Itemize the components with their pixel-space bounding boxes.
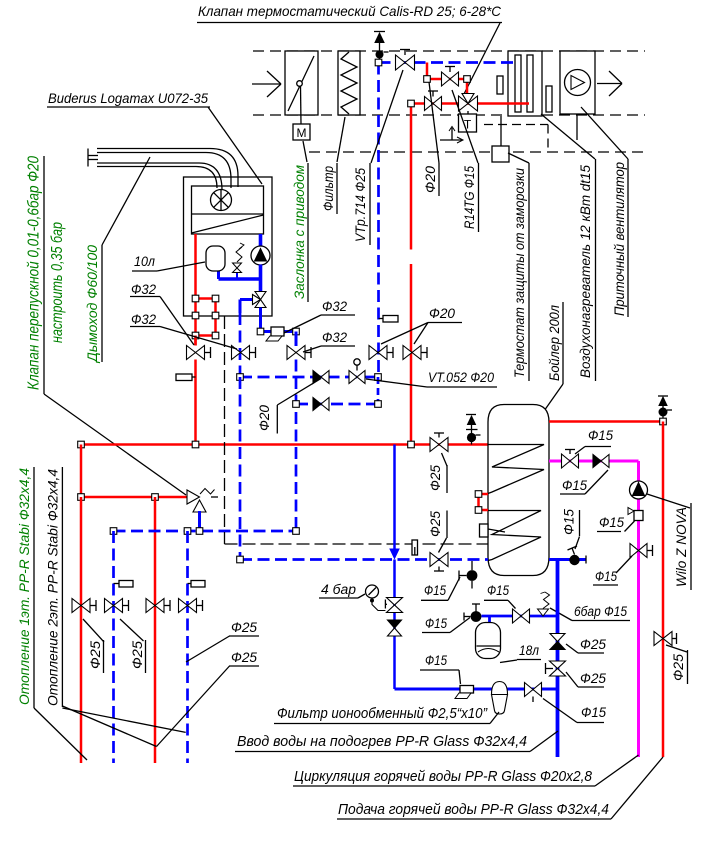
wire: condensate drain vertical [224,316,226,544]
node y497 mid [152,494,159,501]
svg-text:Ф25: Ф25 [231,620,257,635]
svg-text:4 бар: 4 бар [321,582,357,597]
leader [595,755,639,786]
wire: blue dashed between branches [377,377,380,404]
wire: boiler red supply internal [194,234,197,346]
node on return line [375,59,382,66]
duct sensor 2 [546,86,552,112]
wire: boiler blue return internal top [259,234,263,247]
wire: blue dashed riser 1 return [112,531,115,763]
wire: blue dashed header y531 [114,530,297,533]
leader frost box [508,153,529,163]
lower coil [488,511,541,561]
boiler outer box [184,177,273,316]
leader filter [337,117,345,162]
svg-text:10л: 10л [134,254,155,269]
leader [459,670,461,684]
leader [120,619,144,641]
leader [450,618,470,633]
svg-text:Ф32: Ф32 [322,299,347,314]
check valve on branch upper [313,371,321,384]
leader R14TG [452,90,478,163]
boiler inner box with divider [192,186,264,234]
svg-text:Бойлер 200л: Бойлер 200л [547,305,562,381]
wire: blue dashed from strainer valve down [295,360,298,532]
svg-text:Термостат защиты от заморозки: Термостат защиты от заморозки [512,168,527,378]
wire: red header y444 [81,443,488,446]
svg-text:настроить 0,35 бар: настроить 0,35 бар [49,222,66,343]
damper (Заслонка) box with blade [285,51,318,115]
leader [575,447,585,455]
node coil link top [475,491,482,498]
svg-text:Фильтр: Фильтр [321,166,336,211]
leader to 3-way valve [464,23,500,94]
wire: blue dashed tank coil return y559 [240,558,488,561]
node y559 left [237,556,244,563]
air inlet arrow [252,83,280,85]
wire: magenta riser down [637,461,640,757]
svg-text:6бар Ф15: 6бар Ф15 [574,604,627,619]
valve VT.052 Ф20 [349,371,365,384]
svg-text:M: M [297,126,307,140]
wire: blue makeup vertical upper with arrow [393,445,396,551]
valve Ф15 circulation [562,454,579,468]
svg-text:Подача горячей воды PP-R Glass: Подача горячей воды PP-R Glass Ф32х4,4 [338,802,609,818]
leader [575,537,580,550]
wire: blue to expansion vessel [219,277,261,281]
wire: blue dashed left drop [239,313,242,377]
leaders 1эт [34,708,87,760]
wire: red supply to heater [411,102,529,105]
wire: blue dashed branch upper y377 [240,376,378,379]
wire: blue cold water y616 [482,615,558,618]
leader damper [303,141,307,162]
node branch lower left [293,401,300,408]
svg-text:VTp.714 Ф25: VTp.714 Ф25 [353,168,368,242]
svg-text:Ф15: Ф15 [595,569,617,584]
leader [83,619,104,642]
svg-text:Ф25: Ф25 [88,640,103,669]
wire: blue dashed x240 down [239,377,242,560]
check valve on branch lower [313,398,321,411]
wire: magenta DHW circulation [549,460,639,463]
node loop 6 [212,332,219,339]
node bypass left [424,76,431,83]
leader [611,757,663,819]
valve riser red2 [146,599,164,613]
bypass valve (клапан перепускной) [187,490,200,504]
svg-text:Ф20: Ф20 [429,306,455,321]
leader to boiler [208,107,262,184]
safety valve 6бар [538,609,549,616]
svg-text:Ввод воды на подогрев PP-R Gla: Ввод воды на подогрев PP-R Glass Ф32х4,4 [237,734,527,750]
wire: blue left port of 3-way [240,298,253,301]
wire: blue tank inlet stub [549,558,586,561]
svg-text:Фильтр ионообменный Ф2,5“х10”: Фильтр ионообменный Ф2,5“х10” [277,706,488,722]
duct sensor 1 [497,76,503,94]
node loop 4 [212,312,219,319]
check valve makeup [388,620,402,628]
leader [448,577,460,600]
wire: red left drop [80,445,83,498]
wire: red bypass horizontal [427,78,467,81]
wire: blue dashed riser 2 return [186,531,189,763]
svg-text:Клапан термостатический Calis-: Клапан термостатический Calis-RD 25; 6-2… [198,3,502,19]
boiler safety valve [236,272,238,279]
node DHW corner [660,418,667,425]
valve feed [550,661,566,676]
temp sensor tank bottom [569,555,579,565]
leader [508,600,516,608]
valve Ф32 on return drop [232,346,250,360]
leader [566,672,578,687]
drain filter symbol [412,540,418,555]
leader [490,712,499,724]
svg-text:Ф20: Ф20 [423,165,438,193]
valve Ф20 on blue riser [369,346,387,360]
node loop 3 [192,312,199,319]
air outlet arrow [597,83,622,85]
wire: blue bottom line y689 [395,688,558,691]
svg-text:Циркуляция горячей воды PP-R G: Циркуляция горячей воды PP-R Glass Ф20х2… [294,769,592,785]
node bypass right [464,76,471,83]
leader [616,556,632,573]
wire: blue elbow to strainer [261,330,297,333]
leader fan [581,107,628,159]
leader [566,644,578,653]
boiler pump [251,246,270,265]
svg-text:Отопление 1эт. PP-R Stabi Ф32х: Отопление 1эт. PP-R Stabi Ф32х4,4 [17,468,32,705]
leader [277,379,321,406]
svg-text:Ф15: Ф15 [588,428,613,443]
wire: blue dashed branch lower y404 [296,403,378,406]
wire: red DHW supply from tank top [549,420,663,423]
svg-text:Ф15: Ф15 [487,583,509,598]
heater box (Воздухонагреватель) [508,51,542,116]
wire: red bypass stub [426,63,429,80]
tank sensor pocket [480,524,489,537]
svg-text:Клапан перепускной 0,01-0,6бар: Клапан перепускной 0,01-0,6бар Ф20 [26,156,43,390]
fan box (Приточный вентилятор) [560,51,595,114]
valve Ф20 on supply [425,97,442,111]
leader [666,645,687,652]
leader to chimney [102,157,150,245]
node loop 5 [192,332,199,339]
svg-text:Ф25: Ф25 [130,640,145,669]
red manifold loop [196,297,216,300]
wire: blue pump down [259,265,263,293]
svg-text:Ф32: Ф32 [131,282,156,297]
node on supply [408,100,415,107]
leader [530,731,558,752]
node branch upper right [375,374,382,381]
heater sensor stem [500,116,502,146]
svg-text:Ф15: Ф15 [599,515,624,530]
wire: red riser from header upper [410,104,413,250]
boiler fan [211,190,232,211]
svg-text:Ф15: Ф15 [425,653,447,668]
svg-text:Ф15: Ф15 [581,705,606,720]
node y531 left [110,528,117,535]
sensor riser2 [191,581,205,588]
sensor on red drop [176,374,192,381]
svg-text:Ф15: Ф15 [425,616,447,631]
leaders Ф20 [381,323,428,345]
valve riser red1 [72,599,90,613]
svg-text:Wilo Z NOVA: Wilo Z NOVA [674,507,689,587]
svg-text:Приточный вентилятор: Приточный вентилятор [612,162,627,316]
flow direction symbol [451,128,453,140]
svg-text:Дымоход Ф60/100: Дымоход Ф60/100 [84,245,100,364]
leader [358,594,365,598]
expansion vessel 18л [488,616,491,623]
ion exchange filter funnel [492,682,508,695]
node header boiler [192,441,199,448]
svg-text:Ф25: Ф25 [671,653,686,681]
valve bottom line [525,683,542,697]
svg-text:Ф20: Ф20 [257,405,272,431]
frost capillary dashed lines [484,124,548,126]
svg-text:Ф25: Ф25 [428,465,443,491]
svg-text:Ф15: Ф15 [562,509,577,535]
node y497 left [78,494,85,501]
sensor on blue dashed riser [383,316,398,323]
pressure gauge 4 бар [366,585,379,598]
wire: blue down to valve [295,332,298,347]
leader [157,666,230,747]
circulation pump Wilo Z NOVA [630,481,648,499]
wire: red DHW riser down [662,422,665,758]
valve circulation lower [630,544,647,558]
wire: blue dashed return from AHU heater [379,61,516,64]
svg-text:R14TG Ф15: R14TG Ф15 [462,166,477,229]
node loop 2 [212,295,219,302]
svg-text:Ф32: Ф32 [322,330,347,345]
svg-text:Заслонка с приводом: Заслонка с приводом [292,165,307,299]
node y531 bypass [196,528,203,535]
3-way thermostatic valve Calis-RD [459,96,478,111]
wire: red riser 2 (Отопление 2эт supply) [154,497,157,763]
AHU casing lower dashed line [309,151,645,153]
leader [585,470,608,494]
valve riser blue1 [105,599,123,613]
wire: red drop to 3-way [466,79,469,96]
air vent on return line [374,31,385,33]
leader [550,608,572,621]
node elbow [257,328,264,335]
node branch upper left [237,374,244,381]
temp sensor hanging from coil return line [471,561,473,570]
leader VT052 [366,379,427,387]
wire: red header y497 [81,496,187,499]
node y531 right [293,528,300,535]
valve Ф25 tank supply [430,438,448,452]
wire: blue cold feed riser [556,560,560,758]
wire: blue dashed riser down [377,63,380,378]
damper actuator M box [293,124,310,140]
svg-text:Ф25: Ф25 [231,650,257,665]
boiler tank Бойлер 200л [488,405,549,576]
leader [500,660,517,663]
dirt trap on inlet line [460,686,474,694]
non-return symbol [634,511,643,521]
red coil link stubs [479,493,489,496]
3-way valve in boiler [255,292,266,308]
wire: blue left drop solid [239,300,242,314]
air vent DHW [658,395,668,397]
node y531 riser2 [184,528,191,535]
valve Ф32 boiler return [287,346,305,360]
wire: red main drop from boiler [194,360,197,445]
valve Ф25 coil return [430,553,448,567]
svg-text:Ф32: Ф32 [131,312,156,327]
leader [439,538,447,553]
check valve circulation [593,455,601,468]
check valve feed [550,634,565,642]
wire: red down to valve row [194,336,197,346]
valve R14TG on bypass [442,72,459,86]
node loop 1 [192,295,199,302]
svg-text:Ф15: Ф15 [562,478,587,493]
upper coil [488,445,544,494]
wire: blue makeup vertical lower [393,560,396,690]
AHU duct bottom dashed line [253,114,645,116]
sensor riser1 [119,581,133,588]
wire: red riser from header lower [410,264,413,445]
frost thermostat box [492,146,509,162]
expansion vessel 10л [206,246,225,271]
node branch lower right [375,401,382,408]
node coil link bottom [475,507,482,514]
leader VTp714 [371,70,403,163]
thermostat T box [459,114,477,132]
svg-text:VT.052 Ф20: VT.052 Ф20 [428,370,494,385]
leader [284,315,321,333]
AHU duct top dashed line [253,50,645,52]
svg-text:Buderus Logamax U072-35: Buderus Logamax U072-35 [48,90,208,106]
valve Ф25 DHW [654,632,672,646]
wire: blue below 3-way [259,308,262,332]
leaders 2эт [62,706,156,747]
leader [186,636,230,662]
valve Ф32 boiler supply [187,346,205,360]
leader heater [541,114,595,159]
svg-text:Ф25: Ф25 [428,511,443,537]
air vent on tank supply [466,414,476,416]
valve Ф20 on red riser [403,346,421,360]
leader to bypass valve [44,394,186,495]
node strainer right [293,328,300,335]
filter box with zigzag [338,51,360,115]
leader [303,346,321,352]
svg-text:T: T [464,118,472,132]
leader 10л [157,262,205,271]
fan stem [576,114,578,140]
leader boiler tank [544,384,563,411]
svg-text:Отопление 2эт. PP-R Stabi Ф32х: Отопление 2эт. PP-R Stabi Ф32х4,4 [46,469,61,706]
leader [625,521,635,532]
wire: red riser 1 (Отопление 1эт supply) [80,497,83,763]
leader [543,699,577,723]
leader pump [647,494,690,508]
leader Ф20 [429,82,439,163]
valve makeup [387,598,403,613]
leader [160,297,194,346]
node header left [78,441,85,448]
node header AHU riser [408,441,415,448]
strainer Ф32 [271,327,284,336]
wire: blue stub from bypass [198,511,201,531]
leader [442,453,448,466]
svg-text:Ф15: Ф15 [424,583,446,598]
chimney Ф60/100 double pipe [97,149,238,188]
valve riser blue2 [179,599,197,613]
svg-text:Воздухонагреватель 12 кВт dt15: Воздухонагреватель 12 кВт dt15 [578,165,593,378]
svg-text:Ф25: Ф25 [580,671,606,686]
valve cold line [513,609,530,623]
wire: condensate drain horizontal [225,543,489,545]
valve VTp.714 on return [396,55,415,70]
leader [160,327,237,350]
temp sensor on cold line [471,611,482,622]
svg-text:18л: 18л [519,643,539,658]
svg-text:Ф25: Ф25 [580,637,606,652]
